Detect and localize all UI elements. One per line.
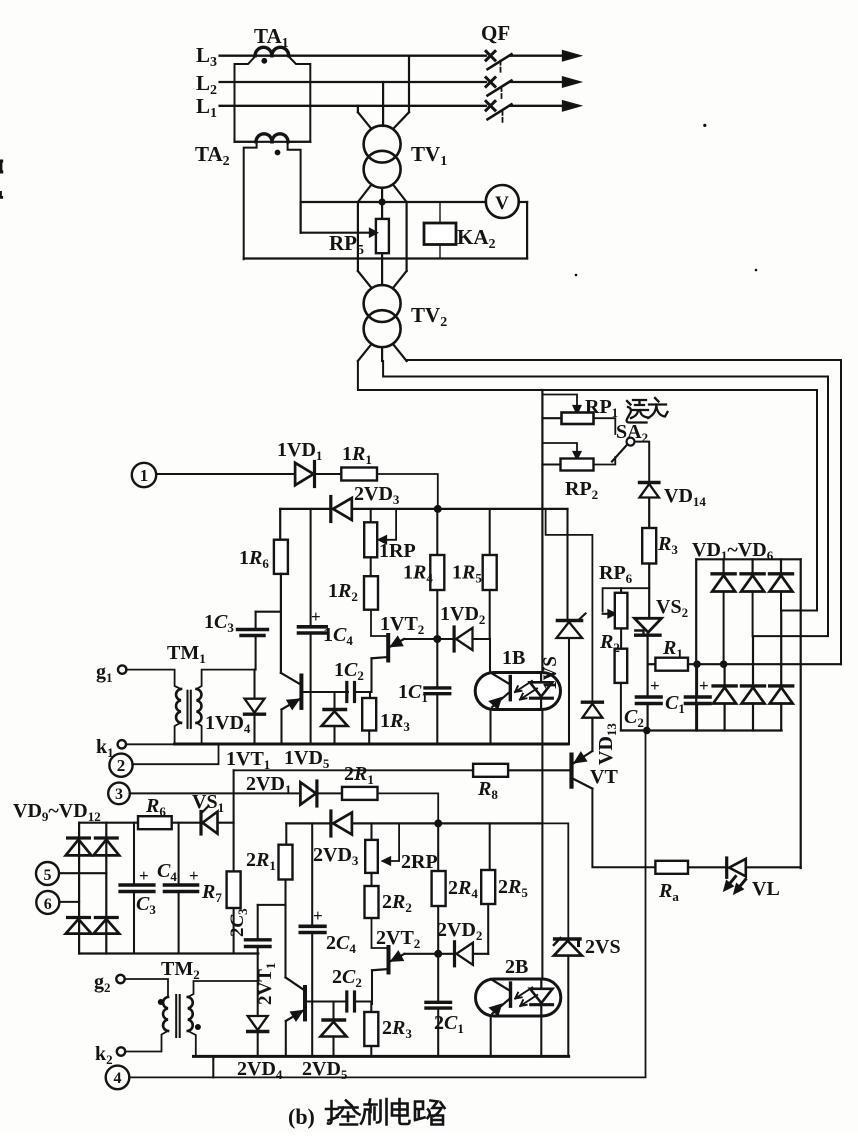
optocoupler 2B — [476, 979, 561, 1016]
VT collector down to Ra wire — [592, 789, 655, 868]
resistor Ra — [655, 861, 688, 874]
TV1 secondary leads — [358, 185, 372, 203]
wire 2R1h to rail junction — [378, 793, 439, 823]
resistor 2R1 vertical with rail corner — [285, 823, 287, 844]
rectifier bridge VD9-VD12 box — [78, 823, 80, 954]
potentiometer RP5 — [381, 202, 383, 219]
transistor VT — [569, 755, 573, 787]
RP2 wiper connection — [542, 443, 577, 452]
terminal g1 — [118, 665, 126, 673]
thyristor VD5 (bottom row) — [752, 636, 754, 686]
svg-text:1VT1: 1VT1 — [226, 748, 270, 772]
2B LED bottom to rail — [540, 1016, 542, 1056]
wire R7 to bottom bus — [233, 908, 235, 954]
breaker QF pole 2: blade — [488, 81, 512, 96]
wire 1RP to 1R2 — [370, 557, 372, 576]
svg-text:1RP: 1RP — [379, 540, 416, 562]
diode 2VD2 — [438, 953, 454, 955]
potentiometer RP6 — [620, 588, 622, 593]
wire R2 to node line — [621, 683, 647, 731]
node 6 terminal — [36, 891, 59, 914]
diode VD10 — [95, 836, 117, 839]
left rail to 1VT1 collector — [280, 574, 282, 673]
2VT1 base stub — [307, 1000, 347, 1002]
wire R6 to VS1 — [172, 822, 201, 824]
diode VD14 — [640, 484, 659, 498]
lower measurement bus — [244, 257, 527, 259]
long vertical through circuit2 — [541, 823, 543, 979]
VL light arrows — [726, 877, 746, 892]
wire node3 to 2VD1 — [130, 792, 298, 794]
potentiometer 2RP — [370, 823, 372, 840]
right outer column between buses — [406, 202, 408, 259]
diode 1VD1 — [295, 463, 313, 485]
phase wire B (mid leg) to bridge col2 — [383, 361, 828, 636]
measurement loop right edge — [526, 202, 528, 259]
resistor 1R2 — [364, 576, 378, 610]
TM2 right winding bottom lead — [188, 1031, 196, 1057]
breaker QF pole 3: blade — [488, 54, 512, 69]
wire jog to VD13 — [546, 509, 593, 701]
svg-text:V: V — [495, 193, 509, 214]
wire 1R1 to rail junction — [377, 474, 438, 509]
bridge right edge / output to VL — [800, 559, 802, 868]
top dc bus to R6 — [106, 822, 138, 824]
TM2 left winding top lead — [125, 979, 168, 997]
transformer TM2 — [163, 997, 168, 1031]
potentiometer RP1 — [562, 413, 594, 425]
transformer TV2 — [364, 285, 401, 322]
TM1 right winding bottom lead — [197, 723, 202, 744]
wire node6 to bridge — [59, 901, 79, 903]
wire node4 along bottom — [129, 730, 645, 1077]
diode 2VD4 — [257, 981, 259, 1015]
wire SA2 to VD14 — [635, 442, 650, 483]
transistor 1VT2 — [386, 635, 390, 661]
TA2 primary line — [235, 141, 311, 143]
1VT1 base stub — [304, 691, 349, 693]
resistor 1R5 with feed — [489, 509, 491, 555]
1B light arrows — [515, 681, 537, 700]
bridge bottom bus — [621, 729, 782, 731]
circuit1 top rail — [280, 508, 331, 510]
svg-text:5: 5 — [44, 867, 52, 884]
node 5 terminal — [36, 862, 59, 885]
1B collector feed from 1VD2 wire — [489, 639, 491, 673]
resistor R7 — [227, 871, 241, 908]
resistor 2R4 with feed — [437, 823, 439, 871]
thyristor VS2 — [635, 618, 662, 632]
wire node1 to 1VD1 — [156, 473, 295, 475]
scan speck — [575, 274, 578, 277]
resistor 1R6 with left rail — [279, 509, 281, 540]
RP1 wiper connection — [542, 395, 577, 407]
resistor 1R4 with feed — [430, 555, 444, 590]
1B LED — [540, 673, 542, 683]
resistor 1R1 — [341, 468, 377, 481]
transistor 2VT2 — [387, 947, 391, 973]
switch SA2 — [627, 438, 635, 446]
voltmeter V — [486, 185, 519, 218]
svg-text:1B: 1B — [502, 647, 525, 669]
svg-text:+: + — [139, 866, 149, 885]
circuit2 bottom rail — [194, 1055, 569, 1058]
node 3 terminal — [108, 783, 130, 805]
thyristor VD3 (top row) — [780, 559, 782, 574]
long vertical wire from phase C to control circuits — [541, 390, 543, 673]
svg-text:1VS: 1VS — [540, 656, 561, 690]
capacitor C4 (left) — [178, 823, 180, 883]
resistor R1 (right area) — [655, 658, 688, 671]
node 1 terminal — [132, 463, 156, 487]
wire RP6 to R2 — [620, 628, 622, 648]
wire 2VD1 to 2R1h — [317, 792, 342, 794]
node4 riser to rail — [212, 1056, 214, 1077]
svg-text:VD9~VD12: VD9~VD12 — [13, 800, 101, 824]
transformer TM1 — [176, 689, 181, 723]
resistor R6 (left) — [138, 816, 172, 829]
left outer column between buses — [357, 202, 359, 259]
diode VD12 — [95, 916, 117, 919]
capacitor C1 (right area) — [696, 664, 698, 697]
RP6 wiper arrow — [603, 613, 609, 615]
TA1-TA2 secondary box — [235, 57, 257, 142]
circuit2 rail to 2VS jog — [541, 823, 568, 937]
wire 2R5 to 2VD2 wire — [487, 904, 489, 954]
1RP wiper — [386, 509, 396, 540]
svg-text:QF: QF — [481, 21, 510, 45]
wire VD13 to VT emitter — [591, 720, 593, 752]
arrow line L2 — [563, 78, 579, 87]
svg-text:2VD2: 2VD2 — [437, 919, 482, 943]
thyristor 1VS — [566, 509, 568, 619]
thyristor VD2 (top row) — [751, 559, 753, 574]
TV1 primary leads — [357, 106, 359, 112]
optocoupler 1B — [475, 673, 560, 710]
resistor R3 — [642, 528, 656, 564]
node dot TV1/RP5 — [379, 198, 386, 205]
wire node5 to bridge — [59, 872, 106, 874]
resistor R8 — [473, 764, 508, 777]
bridge top bus — [696, 558, 801, 560]
transistor 1VT1 — [299, 676, 303, 708]
capacitor 1C1 — [436, 639, 438, 688]
wire 2RP to 2R2 — [370, 873, 372, 886]
RP1 right lead / SA2 upper contact — [594, 418, 616, 434]
TM2 left winding bottom lead — [125, 1031, 168, 1052]
wire VS1 to R7 column — [218, 822, 234, 824]
svg-text:3: 3 — [115, 786, 123, 803]
resistor 2R1 horizontal — [342, 787, 378, 800]
svg-text:1VD2: 1VD2 — [440, 603, 485, 627]
TM1 right winding top lead to 1VD4 — [197, 670, 255, 689]
capacitor 1C2 — [345, 683, 348, 702]
wire 1R4 to junction — [436, 509, 438, 555]
resistor 2R3 — [370, 1002, 372, 1013]
potentiometer RP2 — [561, 459, 594, 471]
2R1v column to 2VT1 — [284, 880, 286, 978]
current transformer TA2 — [256, 134, 272, 142]
diode VD11 — [68, 916, 90, 919]
junction dot circuit1 rail — [434, 505, 442, 513]
TA1 polarity dot — [261, 58, 267, 64]
svg-text:2VS: 2VS — [585, 936, 621, 958]
thyristor VS1 — [199, 812, 202, 835]
svg-text:1VT2: 1VT2 — [380, 613, 424, 637]
svg-text:VL: VL — [752, 878, 780, 900]
upper measurement bus — [301, 201, 486, 203]
wire R3 to VS2 junction — [648, 564, 650, 618]
wire R8 to VT base — [508, 769, 571, 771]
circuit2 top rail — [286, 822, 331, 824]
node 4 terminal — [106, 1066, 130, 1090]
svg-text:+: + — [313, 906, 323, 925]
TA2 secondary left lead to lower bus — [244, 143, 257, 259]
arrow line L3 — [563, 51, 579, 60]
transistor 2VT1 — [303, 987, 307, 1019]
1B emitter lead to rail — [489, 710, 491, 745]
LED VL — [729, 859, 746, 877]
wire Ra to VL — [688, 866, 727, 868]
resistor 1R3 — [369, 692, 371, 698]
arrow line L1 — [563, 101, 579, 110]
capacitor 2C3 — [257, 905, 259, 940]
wire VS2 to R1 — [646, 634, 648, 664]
TA2 polarity dot — [275, 150, 281, 156]
capacitor 1C3 — [256, 611, 281, 613]
2B light arrows — [515, 988, 537, 1007]
svg-text:VT: VT — [590, 766, 618, 788]
capacitor 1C4 — [310, 509, 312, 627]
svg-text:+: + — [189, 866, 199, 885]
capacitor 2C2 — [345, 992, 348, 1011]
TV2 secondary leads — [358, 344, 372, 361]
svg-text:2: 2 — [117, 756, 126, 775]
svg-text:+: + — [699, 676, 709, 695]
thyristor VD4 (bottom row) — [723, 664, 725, 686]
junction dot 2VT2 node — [434, 950, 442, 958]
LED column through circuit1 (to circuit2) — [541, 710, 543, 824]
1B phototransistor — [509, 677, 512, 700]
scan speck — [755, 269, 758, 272]
svg-text:2VT2: 2VT2 — [376, 927, 420, 951]
svg-text:6: 6 — [44, 896, 52, 913]
wire L2 main — [220, 81, 486, 83]
RP2 right lead / SA2 lower contact — [594, 457, 616, 465]
wire L3 main — [220, 55, 486, 57]
breaker QF pole 3: linkage dash — [500, 61, 502, 72]
branch TA2 right to upper bus — [300, 202, 302, 233]
2B emitter lead to rail — [490, 1016, 492, 1056]
current transformer TA1 — [255, 47, 272, 55]
circuit1 bottom rail — [175, 743, 568, 746]
junction dot circuit2 rail — [434, 819, 442, 827]
terminal k1 — [118, 740, 126, 748]
TV2 primary leads — [357, 259, 359, 272]
capacitor 2C1 — [437, 954, 439, 1003]
wire node2 to rail — [132, 744, 218, 764]
diode 1VD5 — [333, 692, 335, 710]
breaker QF pole 1: blade — [488, 104, 512, 119]
terminal k2 — [117, 1047, 125, 1055]
breaker QF pole 2: X mark — [486, 78, 495, 87]
phase wire A (right leg) to bridge node — [407, 360, 841, 664]
breaker QF pole 1: X mark — [486, 101, 495, 110]
capacitor C3 (left) — [133, 823, 135, 883]
junction dot node R1/C1 — [693, 660, 701, 668]
phase wire C (left leg) to bridge col3 — [358, 361, 817, 611]
svg-text:2VD1: 2VD1 — [246, 773, 291, 797]
breaker QF pole 2: linkage dash — [501, 87, 503, 98]
svg-text:+: + — [311, 607, 321, 626]
breaker QF pole 1: linkage dash — [502, 111, 504, 122]
relay coil KA2 — [424, 223, 456, 245]
node 2 terminal — [109, 754, 132, 777]
wire rail corner to R8 — [234, 769, 474, 771]
junction dot C2/node 730 — [643, 727, 651, 735]
bridge left edge — [695, 559, 697, 730]
terminal g2 — [116, 975, 124, 983]
2C3 top wire to 2R1v column — [258, 904, 286, 906]
diode 2VD3 on circuit1 rail — [333, 498, 352, 520]
RP5 wiper arrow — [301, 232, 370, 234]
transformer TV1 — [364, 126, 401, 163]
diode 2VD5 — [332, 1002, 334, 1021]
svg-text:2RP: 2RP — [401, 851, 438, 873]
scan speck — [703, 124, 706, 127]
diode 2VD1 — [300, 782, 316, 804]
diode 1VD2 — [437, 638, 454, 640]
TM2 right winding top lead to 2VD4 — [188, 981, 258, 997]
wire VD14 to R3 — [648, 500, 650, 529]
TM1 left winding bottom lead — [126, 723, 181, 745]
stray mark left edge 2 — [0, 191, 3, 199]
node line right of R1 — [688, 663, 841, 665]
thyristor VD6 (bottom row) — [780, 611, 782, 686]
wire 1R5 down to 1VD2 wire — [489, 590, 491, 639]
capacitor C2 (right area) — [646, 664, 648, 697]
resistor R2 (right area) — [615, 649, 628, 683]
diode 2VD3 on circuit2 rail — [333, 813, 352, 835]
potentiometer 1RP — [370, 509, 372, 522]
svg-text:2B: 2B — [505, 956, 528, 978]
resistor 2R2 — [365, 886, 379, 918]
TM1 left winding top lead — [126, 670, 181, 689]
diode VD13 — [582, 704, 602, 718]
junction dot node col1 — [720, 660, 728, 668]
wire 1VD1 to 1R1 — [315, 473, 342, 475]
thyristor VD1 (top row) — [722, 559, 724, 574]
junction dot 1VT2 node — [433, 635, 441, 643]
2RP wiper — [390, 823, 399, 861]
capacitor 2C4 — [311, 823, 313, 926]
wire L1 main — [220, 105, 486, 107]
TA2 secondary right lead — [288, 143, 301, 233]
resistor 2R5 with feed — [489, 823, 491, 870]
diode VD9 — [68, 836, 90, 839]
TM2 polarity dot right — [195, 1024, 201, 1030]
svg-text:1VD1: 1VD1 — [277, 439, 322, 463]
svg-text:1: 1 — [140, 466, 149, 485]
svg-text:4: 4 — [114, 1070, 122, 1087]
2B phototransistor — [509, 983, 512, 1006]
svg-text:+: + — [650, 676, 660, 695]
column R7/R8 — [233, 770, 235, 871]
2B LED — [540, 979, 542, 989]
TM2 polarity dot left — [158, 999, 164, 1005]
wire to RP6 branch — [603, 588, 650, 611]
thyristor 2VS — [555, 937, 580, 940]
diode 1VD4 — [253, 670, 255, 699]
breaker QF pole 3: X mark — [486, 51, 495, 60]
svg-text:(b): (b) — [288, 1104, 315, 1129]
stray mark left edge — [0, 160, 3, 174]
bottom dc bus — [79, 952, 258, 954]
